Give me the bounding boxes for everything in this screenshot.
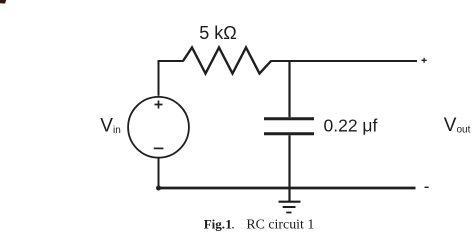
svg-text:0.22 μf: 0.22 μf <box>324 115 378 135</box>
svg-text:Fig.1.RC circuit 1: Fig.1.RC circuit 1 <box>204 216 315 232</box>
svg-text:5 kΩ: 5 kΩ <box>199 23 236 43</box>
